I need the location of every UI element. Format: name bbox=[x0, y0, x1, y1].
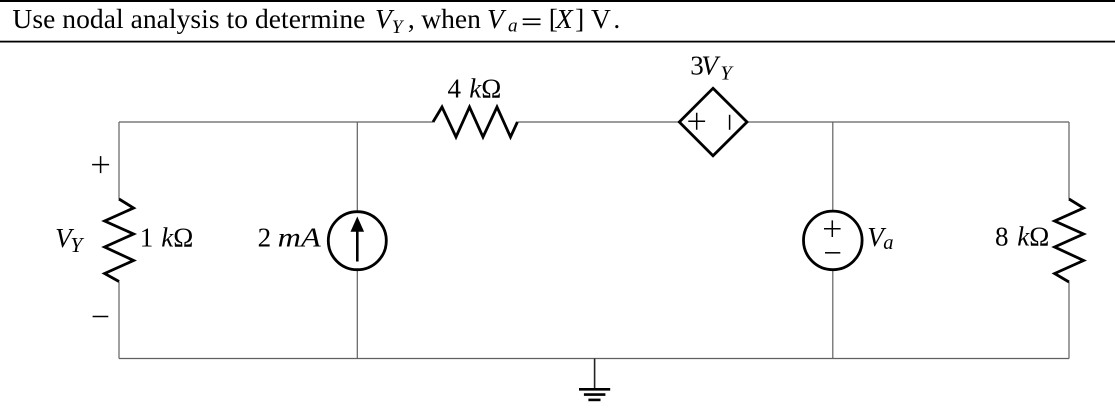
svg-text:Va: Va bbox=[867, 222, 893, 254]
svg-text:1kΩ: 1kΩ bbox=[140, 222, 193, 252]
svg-text:VY: VY bbox=[55, 223, 84, 257]
svg-text:Use nodal analysis to determin: Use nodal analysis to determineVY,whenVa… bbox=[12, 3, 620, 38]
svg-text:8kΩ: 8kΩ bbox=[995, 222, 1049, 252]
svg-text:2mA: 2mA bbox=[258, 222, 322, 252]
svg-text:4kΩ: 4kΩ bbox=[448, 74, 502, 104]
svg-text:3VY: 3VY bbox=[690, 50, 734, 84]
